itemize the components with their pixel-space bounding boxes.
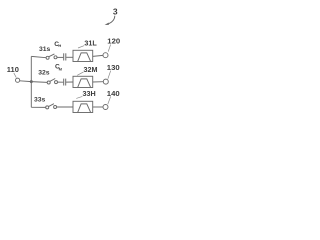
- port 130: [103, 79, 108, 84]
- svg-text:31s: 31s: [39, 46, 51, 53]
- svg-text:31L: 31L: [84, 39, 97, 48]
- switch 33s: [46, 104, 57, 109]
- lead line 110: [14, 73, 16, 78]
- wire switch to capacitor row1: [57, 56, 63, 58]
- capacitor CH: [64, 53, 66, 60]
- filter 31L box: [73, 50, 93, 61]
- svg-text:M: M: [59, 66, 63, 71]
- wire row1 bus to switch: [31, 56, 46, 57]
- label CM: [55, 63, 63, 71]
- lead line 33H: [76, 96, 82, 98]
- filter 33H bandpass symbol: [78, 104, 91, 112]
- label CH: [54, 41, 61, 48]
- svg-text:130: 130: [107, 63, 120, 72]
- lead line 130: [108, 71, 111, 79]
- filter 32M box: [73, 76, 93, 87]
- lead line 31L: [78, 46, 84, 48]
- lead line 120: [108, 45, 110, 52]
- svg-text:140: 140: [107, 89, 120, 98]
- port 110: [16, 78, 20, 82]
- node junction: [30, 80, 33, 83]
- filter 31L bandpass symbol: [78, 53, 91, 61]
- svg-text:H: H: [58, 43, 61, 48]
- lead line 32M: [77, 72, 83, 75]
- wire switch to filter row3: [57, 106, 73, 108]
- wire switch to capacitor row2: [58, 81, 64, 83]
- svg-text:110: 110: [7, 65, 19, 74]
- port 140: [103, 105, 108, 110]
- svg-text:120: 120: [107, 36, 120, 45]
- wire row2 node to switch: [31, 81, 47, 84]
- svg-text:3: 3: [113, 6, 118, 16]
- filter 32M bandpass symbol: [78, 79, 91, 87]
- wire filter to port 120: [93, 55, 103, 56]
- wire filter to port 140: [93, 106, 103, 108]
- svg-text:33H: 33H: [83, 89, 96, 98]
- wire filter to port 130: [93, 81, 104, 83]
- port 120: [103, 53, 108, 58]
- wire capacitor to filter row2: [66, 81, 73, 83]
- wire port to node: [20, 80, 32, 83]
- figure number 3 arrow: [105, 16, 115, 25]
- wire bus vertical: [30, 56, 32, 107]
- svg-text:32M: 32M: [84, 65, 98, 74]
- wire row3 bus to switch: [31, 106, 45, 108]
- switch 31s: [46, 54, 57, 59]
- lead line 140: [108, 96, 111, 104]
- svg-text:32s: 32s: [38, 69, 50, 76]
- switch 32s: [47, 79, 57, 85]
- svg-text:33s: 33s: [34, 96, 46, 103]
- wire capacitor to filter row1: [66, 56, 73, 58]
- capacitor CM: [64, 79, 66, 86]
- filter 33H box: [73, 101, 93, 112]
